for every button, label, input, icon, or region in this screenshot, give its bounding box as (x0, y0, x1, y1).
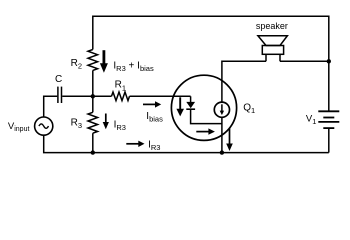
arrow current IR3 (beside R3) (103, 114, 109, 130)
battery V1 (318, 111, 339, 128)
wire gate rail (node to capacitor) (62, 95, 111, 97)
junction node speaker right (327, 59, 331, 63)
svg-text:Vinput: Vinput (8, 121, 30, 133)
arrow current IR3+Ibias (bold, beside R2) (100, 50, 108, 73)
arrow source current (below Q1) (226, 128, 233, 151)
wire R2 bottom to node (92, 70, 94, 96)
wire drain up to speaker line (222, 61, 266, 102)
current source inside Q1 (214, 102, 229, 117)
wire source down to bottom rail (221, 117, 223, 152)
svg-text:Q1: Q1 (243, 103, 255, 116)
svg-text:V1: V1 (306, 113, 317, 125)
arrow channel current inside Q1 (bottom) (196, 128, 215, 134)
svg-text:speaker: speaker (256, 21, 288, 31)
arrow inside current source (220, 104, 224, 115)
wire battery bottom to rail (328, 128, 330, 153)
wire Vinput bottom to rail (44, 135, 329, 152)
svg-text:Ibias: Ibias (146, 111, 163, 124)
transistor Q1 envelope (171, 75, 236, 140)
svg-text:R1: R1 (115, 80, 126, 93)
wire capacitor left to Vinput (44, 96, 58, 117)
junction node source bottom (220, 150, 224, 154)
svg-text:R2: R2 (71, 58, 82, 71)
diode gate-channel inside Q1 (186, 96, 222, 123)
svg-text:C: C (55, 74, 62, 85)
capacitor C (58, 87, 62, 103)
junction node gate (91, 94, 95, 98)
wire speaker right to rail (280, 60, 329, 62)
resistor R3 (88, 96, 98, 152)
junction node R3 bottom (91, 150, 95, 154)
resistor R1 (112, 92, 130, 101)
arrow current IR3 (bottom rail) (126, 141, 144, 147)
speaker (258, 36, 288, 62)
source Vinput (35, 117, 53, 135)
svg-text:IR3 + Ibias: IR3 + Ibias (113, 60, 154, 73)
wire top rail (93, 16, 329, 111)
svg-text:R3: R3 (71, 118, 82, 131)
arrow current Ibias (gate wire) (143, 101, 161, 107)
wire R1 to gate (130, 95, 191, 97)
svg-text:IR3: IR3 (114, 120, 126, 133)
resistor R2 (88, 50, 98, 71)
arrow Ibias inside Q1 (gate side) (176, 97, 184, 116)
svg-text:IR3: IR3 (148, 139, 160, 152)
